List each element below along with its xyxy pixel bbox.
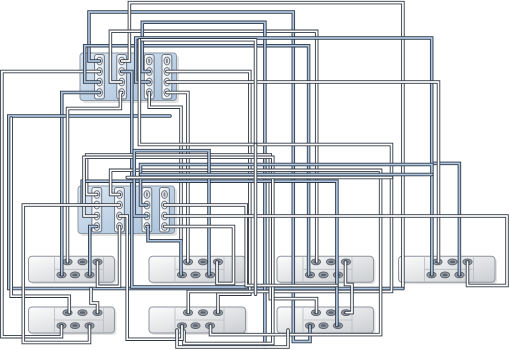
disk shelf r2c1 chassis: [29, 307, 117, 335]
disk shelf r2c3 top port 2: [341, 310, 350, 316]
cable C2-HBA3-P2 to r1c4 bottom port0: [141, 165, 432, 275]
disk shelf r1c1 bottom port 0: [57, 272, 66, 278]
disk shelf r1c1 bottom port 2: [85, 272, 94, 278]
cable C1-HBA2-P1 long loop: [122, 3, 403, 289]
disk shelf r2c3 bottom port 2: [333, 323, 342, 329]
disk shelf r1c2 top port 2: [213, 259, 222, 265]
wire bottom bracket: [177, 330, 288, 347]
controller 2 chassis: [78, 186, 177, 236]
disk shelf r2c3 bottom port 1: [319, 323, 328, 329]
disk shelf r1c2 top port 0: [183, 259, 192, 265]
disk shelf r1c1 bottom port 1: [70, 272, 79, 278]
cable C1-HBA1-P2 to r2c1 bottom port0: [2, 72, 100, 337]
disk shelf r2c2 top port 0: [183, 310, 192, 316]
disk shelf r1c4 bottom port 1: [440, 272, 449, 278]
wire channel G: [127, 176, 391, 180]
disk shelf r1c3 bottom port 1: [319, 272, 328, 278]
disk shelf r1c3 top port 0: [311, 259, 320, 265]
controller 2 HBA3 card: [142, 188, 152, 233]
disk shelf r1c3 top port 1: [326, 259, 335, 265]
cable loop B spur: [139, 40, 255, 145]
cable C2-HBA2-P2 to r2c1 bottom port2: [23, 205, 119, 343]
controller 1 chassis: [80, 53, 179, 103]
disk shelf r1c4 bottom port 2: [455, 272, 464, 278]
cable C2-HBA4-P2 to r1c3 bottom port2: [165, 205, 337, 286]
wire channel 288 return: [9, 116, 403, 289]
cable C1-HBA1-P3 to r1c3 bottom port0: [85, 46, 309, 275]
cable C1-HBA1-P1 to r2c3 bottom port0: [89, 12, 310, 342]
disk shelf r1c1 top port 1: [78, 259, 87, 265]
cable loop B to r2c2 top port0: [139, 40, 391, 313]
cable r1c3 top port2 link to r2c3 top port2: [346, 262, 353, 313]
disk shelf r2c1 top port 2: [93, 310, 102, 316]
disk shelf r1c2 bottom port 1: [191, 272, 200, 278]
disk shelf r1c2 chassis: [149, 256, 248, 284]
disk shelf r1c3 top port 2: [341, 259, 350, 265]
cable C2-HBA4-P4 to r1c2 top port2: [165, 227, 234, 284]
cable C2-HBA4-P3 to r1c4 top port2: [165, 216, 508, 286]
disk shelf r2c3 top port 0: [311, 310, 320, 316]
cable C2-HBA1-P2 to r2c3 bottom port2: [82, 181, 337, 325]
disk shelf r2c2 chassis: [149, 307, 248, 335]
disk shelf r2c3 top port 1: [326, 310, 335, 316]
cable C1-HBA1-P4 to r1c1 bottom port0: [62, 93, 100, 275]
cable C1-HBA2-P2 south run: [122, 72, 247, 288]
disk shelf r1c4 top port 1: [448, 259, 457, 265]
controller 2 HBA2 card: [115, 188, 125, 233]
disk shelf r1c3 bottom port 2: [333, 272, 342, 278]
cable C2-HBA2-P1 to r2c2 bottom port2: [111, 170, 381, 334]
controller 1 HBA1 card: [95, 55, 105, 100]
wire r2c1 top port2 feeder: [91, 289, 98, 313]
disk shelf r1c4 bottom port 0: [427, 272, 436, 278]
controller 1 HBA4 card: [162, 55, 172, 100]
disk shelf r1c3 chassis: [277, 256, 376, 284]
cable C1-HBA3-P2 long run: [142, 22, 265, 347]
cable C2-HBA2-P4 to r1c1 top port2: [98, 227, 120, 287]
cable C2-HBA3-P4 to r1c2 bottom port0: [147, 227, 181, 275]
cable C2-HBA2-P3 to r2c2 bottom port0: [120, 216, 183, 339]
cable C2-HBA1-P4 to r1c1 bottom port2: [90, 227, 97, 275]
disk shelf r2c2 top port 2: [213, 310, 222, 316]
cable C1-HBA2-P3 to r1c3 top port0: [110, 31, 316, 262]
wire vertical 255 lower: [254, 145, 258, 295]
disk shelf r1c4 top port 0: [433, 259, 442, 265]
disk shelf r2c2 bottom port 0: [177, 323, 186, 329]
disk shelf r2c1 bottom port 1: [70, 323, 79, 329]
disk shelf r1c2 top port 1: [198, 259, 207, 265]
cable C1-HBA4-P4 to r1c2 top port0: [167, 93, 188, 262]
cable C1-HBA3-P3 to r1c4 bottom port2: [136, 38, 460, 275]
disk shelf r1c2 bottom port 0: [177, 272, 186, 278]
disk shelf r2c2 top port 1: [198, 310, 207, 316]
disk shelf r2c1 top port 1: [78, 310, 87, 316]
cable C2-HBA3-P3 to r1c2 bottom port2: [134, 151, 209, 275]
cable C1-HBA4-P2 to r2c2 top port2: [167, 72, 250, 313]
disk shelf r2c2 bottom port 1: [191, 323, 200, 329]
disk shelf r1c4 top port 2: [463, 259, 472, 265]
disk shelf r1c1 top port 0: [63, 259, 72, 265]
disk shelf r2c3 bottom port 0: [305, 323, 314, 329]
disk shelf r1c3 bottom port 0: [305, 272, 314, 278]
cable C1-HBA2-P4 to r1c1 top port0: [68, 93, 122, 262]
cable C1-HBA3-P4 feeder: [149, 93, 181, 241]
controller 2 HBA1 card: [92, 188, 102, 233]
cable C2-HBA1-P1 to r2c3 top port0: [87, 155, 317, 313]
disk shelf r2c1 bottom port 0: [57, 323, 66, 329]
disk shelf r1c2 bottom port 2: [205, 272, 214, 278]
cable loop A to r2c1 top port0: [11, 118, 69, 313]
disk shelf r2c1 top port 0: [63, 310, 72, 316]
controller 1 HBA2 card: [117, 55, 127, 100]
wire channel F2: [141, 173, 432, 177]
cable C2-HBA1-P3 spur line: [84, 157, 273, 343]
disk shelf r2c2 bottom port 2: [205, 323, 214, 329]
controller 1 HBA3 card: [144, 55, 154, 100]
cable C1-HBA4-P3 to r1c4 top port0: [167, 82, 439, 262]
disk shelf r1c4 chassis: [399, 256, 498, 284]
controller 2 HBA4 card: [160, 188, 170, 233]
disk shelf r1c1 chassis: [29, 256, 117, 284]
disk shelf r2c1 bottom port 2: [85, 323, 94, 329]
disk shelf r1c1 top port 2: [93, 259, 102, 265]
disk shelf r2c3 chassis: [277, 307, 376, 335]
